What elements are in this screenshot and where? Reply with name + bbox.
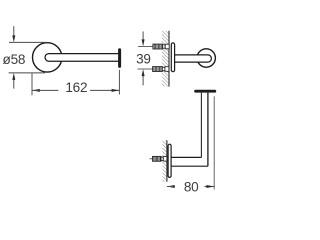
dim ø58 lower arrow bbox=[12, 73, 15, 80]
lower screw collar bbox=[162, 67, 165, 70]
dim 39 lower arrow bbox=[142, 69, 145, 76]
dim 80 left arrow bbox=[167, 185, 175, 188]
svg-text:162: 162 bbox=[65, 80, 87, 95]
dim 162 dimension line right segment bbox=[90, 89, 119, 91]
wall flange plate (top view) bbox=[168, 144, 171, 177]
upper screw collar bbox=[163, 45, 166, 48]
upper screw anchor (wall plug) bbox=[153, 44, 163, 49]
support arm (side view slot with rounded end) bbox=[174, 55, 211, 62]
roll bar (front view, stadium shape) bbox=[45, 54, 119, 62]
svg-text:80: 80 bbox=[184, 179, 199, 194]
dim ø58 upper dimension line bbox=[13, 26, 15, 36]
dim 162 left arrow bbox=[32, 89, 40, 92]
screw anchor ribs (top view) bbox=[154, 156, 161, 161]
dim 80 dimension line left segment bbox=[167, 186, 175, 188]
upper screw head bbox=[165, 44, 169, 49]
support arm top line (top view) bbox=[171, 156, 201, 158]
dim 39 upper dimension line bbox=[142, 32, 144, 41]
dim ø58 top extension line bbox=[9, 41, 47, 43]
support arm bottom line (top view) bbox=[171, 165, 208, 167]
dim 162 dimension line left segment bbox=[32, 89, 58, 91]
lower screw anchor ribs bbox=[154, 67, 161, 72]
lower screw head bbox=[165, 67, 169, 72]
end cap disc (front view) bbox=[118, 50, 121, 67]
screw tip line (top view) bbox=[150, 158, 153, 160]
dim 80 dimension line right segment bbox=[205, 186, 215, 188]
svg-text:ø58: ø58 bbox=[3, 52, 26, 67]
upper screw anchor ribs bbox=[154, 44, 161, 49]
svg-text:39: 39 bbox=[136, 52, 151, 67]
wall section hatch (top view) bbox=[162, 140, 166, 181]
screw anchor (top view) bbox=[153, 156, 162, 161]
dim 80 right arrow bbox=[206, 185, 214, 188]
dim 162 right arrow bbox=[112, 89, 120, 92]
wall face line (top view) bbox=[166, 140, 168, 181]
dim ø58 upper arrow bbox=[12, 35, 15, 42]
dim ø58 bottom extension line bbox=[9, 72, 45, 74]
roll bar right line (top view) bbox=[207, 93, 209, 167]
lower screw: extension/tip line bbox=[138, 68, 153, 70]
roll bar left line (top view) bbox=[200, 93, 202, 158]
screw head (top view) bbox=[163, 157, 167, 162]
rosette end disc (side view outer circle) bbox=[197, 49, 215, 67]
dim 162 left extension line bbox=[31, 74, 33, 96]
wall face line bbox=[168, 31, 170, 87]
dim 39 upper arrow bbox=[142, 39, 145, 46]
bar end cap (top view) bbox=[196, 90, 215, 93]
dim 162 right extension line bbox=[118, 70, 120, 95]
dim ø58 lower dimension line bbox=[13, 79, 15, 89]
upper screw: extension/tip line bbox=[138, 46, 153, 48]
screw collar (top view) bbox=[161, 157, 163, 160]
dim 80 right extension line bbox=[213, 96, 215, 189]
lower screw anchor (wall plug) bbox=[153, 67, 163, 72]
dim 39 lower dimension line bbox=[142, 75, 144, 85]
wall section hatch bbox=[162, 31, 169, 87]
wall flange plate (side view) bbox=[171, 43, 174, 72]
wall rosette circle (front view) bbox=[33, 43, 62, 72]
